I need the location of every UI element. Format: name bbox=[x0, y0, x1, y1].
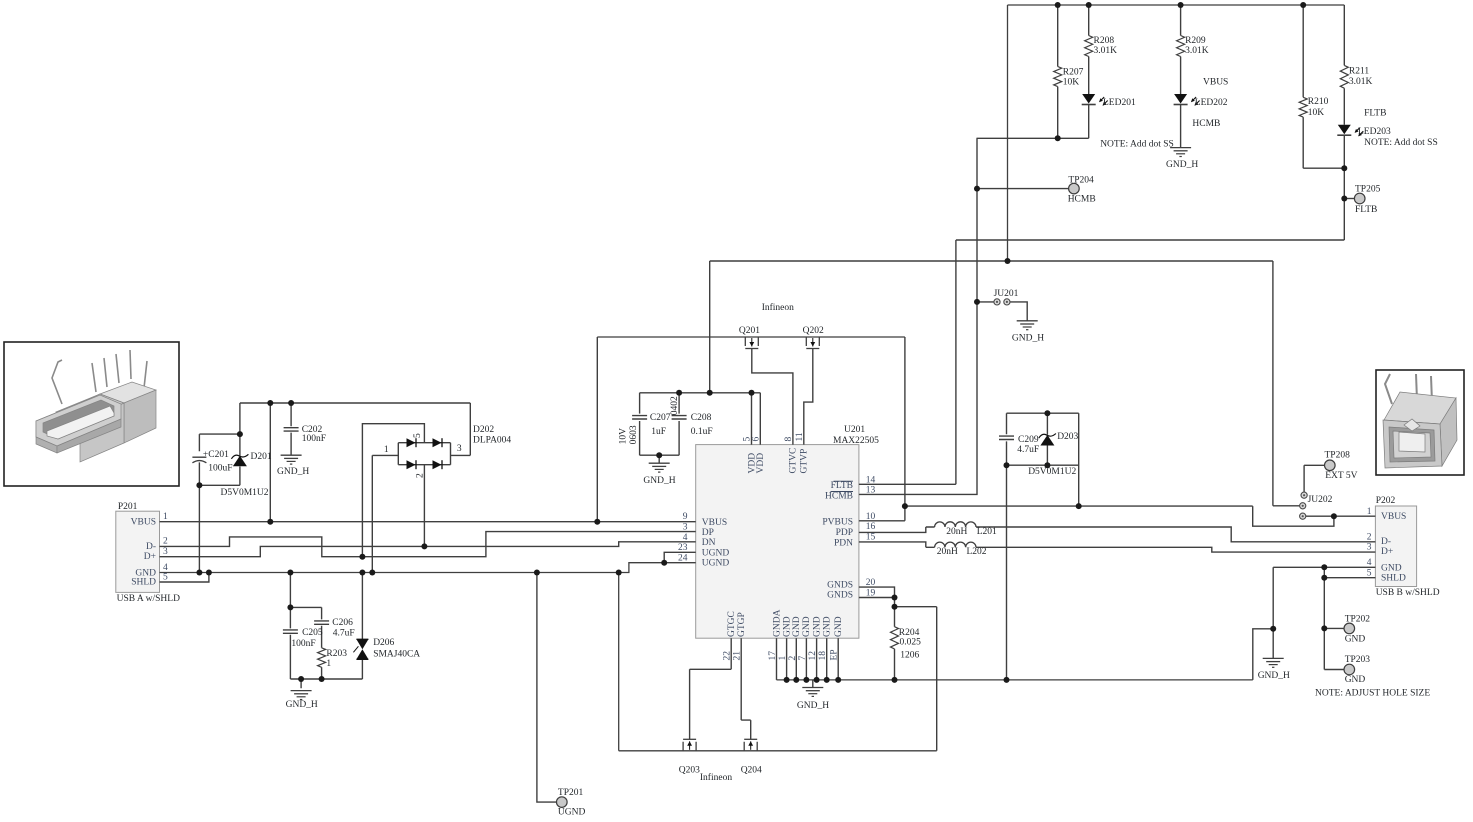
svg-text:GND_H: GND_H bbox=[277, 467, 309, 477]
svg-text:JU202: JU202 bbox=[1308, 495, 1333, 505]
svg-text:2: 2 bbox=[788, 656, 798, 661]
svg-text:UGND: UGND bbox=[702, 559, 730, 569]
svg-text:GND: GND bbox=[1345, 675, 1366, 685]
svg-text:LED202: LED202 bbox=[1195, 98, 1228, 108]
svg-text:18: 18 bbox=[818, 651, 828, 661]
svg-text:10V: 10V bbox=[618, 428, 628, 445]
svg-text:22: 22 bbox=[723, 651, 733, 661]
svg-text:EP: EP bbox=[830, 649, 840, 660]
svg-text:R211: R211 bbox=[1349, 66, 1369, 76]
svg-text:FLTB: FLTB bbox=[1355, 205, 1377, 215]
svg-text:U201: U201 bbox=[844, 425, 865, 435]
svg-text:19: 19 bbox=[866, 588, 876, 598]
svg-text:5: 5 bbox=[413, 433, 423, 438]
svg-text:1: 1 bbox=[384, 445, 389, 455]
svg-text:GND_H: GND_H bbox=[1258, 671, 1290, 681]
svg-text:C209: C209 bbox=[1018, 435, 1039, 445]
svg-text:D5V0M1U2: D5V0M1U2 bbox=[221, 488, 269, 498]
svg-text:1: 1 bbox=[326, 659, 331, 669]
svg-text:Infineon: Infineon bbox=[762, 302, 794, 313]
svg-text:L201: L201 bbox=[977, 527, 997, 537]
svg-text:D5V0M1U2: D5V0M1U2 bbox=[1028, 467, 1076, 477]
svg-text:EXT 5V: EXT 5V bbox=[1325, 471, 1357, 481]
svg-text:GNDA: GNDA bbox=[772, 609, 782, 637]
svg-text:4: 4 bbox=[1367, 558, 1372, 568]
svg-text:TP208: TP208 bbox=[1325, 451, 1351, 461]
svg-text:SHLD: SHLD bbox=[1381, 574, 1406, 584]
svg-text:20nH: 20nH bbox=[946, 527, 967, 537]
svg-text:GND_H: GND_H bbox=[1012, 333, 1044, 343]
svg-text:P201: P201 bbox=[118, 502, 138, 512]
svg-text:10K: 10K bbox=[1063, 78, 1080, 88]
svg-text:2: 2 bbox=[1367, 533, 1372, 543]
svg-text:5: 5 bbox=[1367, 568, 1372, 578]
svg-text:GTGC: GTGC bbox=[727, 611, 737, 637]
svg-text:D-: D- bbox=[146, 542, 156, 552]
svg-text:+C201: +C201 bbox=[203, 450, 229, 460]
svg-text:R209: R209 bbox=[1185, 36, 1206, 46]
svg-text:TP204: TP204 bbox=[1068, 175, 1094, 185]
svg-text:0402: 0402 bbox=[670, 396, 680, 415]
svg-text:R207: R207 bbox=[1063, 67, 1084, 77]
svg-text:FLTB: FLTB bbox=[1364, 108, 1386, 118]
svg-text:10: 10 bbox=[866, 512, 876, 522]
svg-text:100nF: 100nF bbox=[291, 639, 315, 649]
svg-text:GND_H: GND_H bbox=[286, 700, 318, 710]
svg-text:4.7uF: 4.7uF bbox=[333, 629, 355, 639]
svg-text:JU201: JU201 bbox=[994, 289, 1019, 299]
svg-text:3: 3 bbox=[457, 444, 462, 454]
svg-text:Q204: Q204 bbox=[741, 766, 762, 776]
svg-text:4: 4 bbox=[683, 533, 688, 543]
svg-text:GND: GND bbox=[823, 616, 833, 637]
svg-text:9: 9 bbox=[683, 512, 688, 522]
svg-text:D202: D202 bbox=[473, 425, 494, 435]
svg-text:1: 1 bbox=[1367, 507, 1372, 517]
svg-text:GTVP: GTVP bbox=[800, 449, 810, 474]
svg-text:13: 13 bbox=[866, 486, 876, 496]
svg-text:3.01K: 3.01K bbox=[1349, 77, 1373, 87]
svg-text:3: 3 bbox=[163, 547, 168, 557]
svg-text:17: 17 bbox=[768, 651, 778, 661]
svg-text:3.01K: 3.01K bbox=[1094, 46, 1118, 56]
svg-text:FLTB: FLTB bbox=[831, 481, 853, 491]
svg-text:GND: GND bbox=[1381, 563, 1402, 573]
svg-text:2: 2 bbox=[416, 473, 426, 478]
svg-text:GTGP: GTGP bbox=[737, 612, 747, 637]
svg-text:R210: R210 bbox=[1308, 97, 1329, 107]
svg-text:10K: 10K bbox=[1308, 108, 1325, 118]
svg-text:24: 24 bbox=[678, 554, 688, 564]
svg-text:GND: GND bbox=[812, 616, 822, 637]
svg-text:Q201: Q201 bbox=[739, 326, 760, 336]
svg-text:GNDS: GNDS bbox=[827, 591, 853, 601]
svg-text:Q202: Q202 bbox=[803, 326, 824, 336]
svg-text:P202: P202 bbox=[1376, 496, 1396, 506]
svg-text:C208: C208 bbox=[691, 413, 712, 423]
svg-text:PDN: PDN bbox=[834, 538, 853, 548]
svg-text:D201: D201 bbox=[251, 452, 272, 462]
svg-text:NOTE: ADJUST HOLE SIZE: NOTE: ADJUST HOLE SIZE bbox=[1315, 689, 1430, 699]
svg-text:NOTE: Add dot SS: NOTE: Add dot SS bbox=[1100, 140, 1174, 150]
svg-text:C206: C206 bbox=[332, 618, 353, 628]
svg-text:SMAJ40CA: SMAJ40CA bbox=[373, 649, 420, 659]
svg-text:C207: C207 bbox=[650, 413, 671, 423]
svg-text:2: 2 bbox=[163, 537, 168, 547]
svg-text:GND_H: GND_H bbox=[1166, 160, 1198, 170]
svg-text:GND: GND bbox=[1345, 635, 1366, 645]
svg-text:HCMB: HCMB bbox=[825, 491, 853, 501]
svg-text:1206: 1206 bbox=[900, 651, 919, 661]
svg-text:16: 16 bbox=[866, 522, 876, 532]
svg-text:UGND: UGND bbox=[702, 548, 730, 558]
svg-text:SHLD: SHLD bbox=[131, 578, 156, 588]
svg-text:3: 3 bbox=[1367, 543, 1372, 553]
svg-text:21: 21 bbox=[733, 651, 743, 661]
svg-text:20: 20 bbox=[866, 578, 876, 588]
svg-text:D203: D203 bbox=[1057, 432, 1078, 442]
svg-text:VBUS: VBUS bbox=[131, 517, 156, 527]
svg-text:14: 14 bbox=[866, 475, 876, 485]
svg-text:5: 5 bbox=[163, 572, 168, 582]
svg-text:L202: L202 bbox=[967, 547, 987, 557]
svg-text:6: 6 bbox=[752, 437, 762, 442]
svg-text:DN: DN bbox=[702, 538, 716, 548]
svg-text:D206: D206 bbox=[373, 638, 394, 648]
svg-text:GTVC: GTVC bbox=[789, 448, 799, 474]
svg-text:1uF: 1uF bbox=[651, 427, 666, 437]
svg-text:D+: D+ bbox=[144, 552, 156, 562]
svg-text:PVBUS: PVBUS bbox=[822, 518, 853, 528]
svg-text:R204: R204 bbox=[899, 628, 920, 638]
svg-text:USB B w/SHLD: USB B w/SHLD bbox=[1376, 588, 1440, 598]
svg-text:GND_H: GND_H bbox=[643, 476, 675, 486]
svg-text:VBUS: VBUS bbox=[702, 518, 727, 528]
svg-text:3: 3 bbox=[683, 523, 688, 533]
svg-text:TP205: TP205 bbox=[1355, 184, 1381, 194]
svg-text:11: 11 bbox=[795, 432, 805, 441]
svg-text:GND: GND bbox=[792, 616, 802, 637]
svg-text:GND_H: GND_H bbox=[797, 701, 829, 711]
svg-text:Infineon: Infineon bbox=[700, 772, 732, 783]
svg-text:8: 8 bbox=[784, 437, 794, 442]
svg-text:Q203: Q203 bbox=[679, 766, 700, 776]
svg-text:100uF: 100uF bbox=[208, 463, 232, 473]
svg-text:7: 7 bbox=[798, 656, 808, 661]
svg-text:0.1uF: 0.1uF bbox=[691, 427, 713, 437]
svg-text:20nH: 20nH bbox=[937, 547, 958, 557]
svg-text:HCMB: HCMB bbox=[1192, 119, 1220, 129]
svg-text:TP201: TP201 bbox=[558, 788, 584, 798]
svg-text:VBUS: VBUS bbox=[1381, 512, 1406, 522]
svg-text:DLPA004: DLPA004 bbox=[473, 435, 511, 445]
svg-text:DP: DP bbox=[702, 528, 714, 538]
svg-text:23: 23 bbox=[678, 543, 688, 553]
svg-text:C205: C205 bbox=[302, 628, 323, 638]
svg-text:D-: D- bbox=[1381, 537, 1391, 547]
svg-text:3.01K: 3.01K bbox=[1185, 46, 1209, 56]
svg-text:0.025: 0.025 bbox=[900, 638, 922, 648]
svg-text:TP202: TP202 bbox=[1345, 615, 1371, 625]
svg-text:TP203: TP203 bbox=[1345, 655, 1371, 665]
svg-text:MAX22505: MAX22505 bbox=[833, 436, 879, 446]
svg-text:100nF: 100nF bbox=[302, 434, 326, 444]
svg-text:0603: 0603 bbox=[629, 425, 639, 444]
svg-text:GNDS: GNDS bbox=[827, 580, 853, 590]
svg-text:LED203: LED203 bbox=[1358, 127, 1391, 137]
svg-text:USB A w/SHLD: USB A w/SHLD bbox=[117, 594, 180, 604]
svg-text:15: 15 bbox=[866, 532, 876, 542]
svg-text:R208: R208 bbox=[1094, 36, 1115, 46]
svg-text:D+: D+ bbox=[1381, 547, 1393, 557]
svg-text:12: 12 bbox=[808, 651, 818, 661]
svg-text:GND: GND bbox=[834, 616, 844, 637]
svg-text:LED201: LED201 bbox=[1103, 98, 1136, 108]
svg-text:VDD: VDD bbox=[756, 453, 766, 474]
svg-text:1: 1 bbox=[778, 656, 788, 661]
svg-text:4.7uF: 4.7uF bbox=[1017, 445, 1039, 455]
svg-text:VBUS: VBUS bbox=[1203, 77, 1228, 87]
svg-text:1: 1 bbox=[163, 512, 168, 522]
svg-text:NOTE: Add dot SS: NOTE: Add dot SS bbox=[1364, 138, 1438, 148]
svg-text:GND: GND bbox=[802, 616, 812, 637]
svg-text:PDP: PDP bbox=[836, 528, 853, 538]
svg-text:HCMB: HCMB bbox=[1068, 195, 1096, 205]
svg-text:GND: GND bbox=[782, 616, 792, 637]
svg-text:R203: R203 bbox=[326, 649, 347, 659]
svg-text:UGND: UGND bbox=[558, 808, 586, 818]
